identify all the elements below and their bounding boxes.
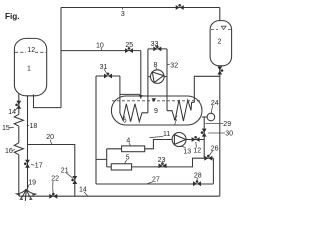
- valve 14: [15, 101, 21, 109]
- valve 31: [104, 73, 112, 79]
- valve 33: [153, 45, 161, 51]
- svg-text:14: 14: [8, 109, 16, 116]
- tank 2 level dashed line: [211, 28, 231, 30]
- wire pump 11 discharge: [186, 139, 204, 141]
- svg-text:9: 9: [154, 108, 158, 115]
- svg-text:6: 6: [123, 118, 127, 125]
- pump 11: [172, 133, 186, 147]
- svg-text:15: 15: [2, 125, 10, 132]
- svg-text:29: 29: [223, 121, 231, 128]
- valve 31 box: [96, 75, 120, 77]
- wire tank2 outlet drop (line 29): [219, 66, 221, 196]
- svg-text:1: 1: [27, 66, 31, 73]
- wire bottom main line: [19, 195, 220, 197]
- expansion zigzag 15: [14, 114, 23, 126]
- spray symbol at drain: [17, 189, 36, 201]
- valve 21: [71, 176, 77, 184]
- tank 1 right outlet to riser: [34, 94, 62, 107]
- wire zigzag line to bottom: [18, 155, 20, 197]
- valve 23: [159, 162, 167, 168]
- svg-text:13: 13: [183, 148, 191, 155]
- valve 12: [192, 136, 200, 142]
- wire rect5 outlet line: [132, 158, 214, 167]
- svg-text:23: 23: [158, 157, 166, 164]
- svg-text:4: 4: [126, 138, 130, 145]
- heat exchanger shell 9: [111, 96, 202, 125]
- heater rect 4: [122, 146, 145, 152]
- gauge circle 24: [207, 113, 215, 121]
- wire line 27: [96, 183, 213, 185]
- tank 1 center outlet line 18: [27, 95, 29, 189]
- wire top pipe 3: [61, 7, 220, 9]
- wire line 20: [28, 145, 75, 197]
- wire tank2 branch to coil 7: [194, 76, 220, 102]
- svg-text:11: 11: [163, 131, 170, 138]
- svg-text:8: 8: [154, 62, 158, 69]
- valve under tank 2: [217, 67, 223, 75]
- valve 30: [201, 129, 207, 137]
- svg-text:31: 31: [100, 64, 108, 71]
- heater rect 5: [111, 164, 131, 170]
- wire between zigzags: [18, 126, 20, 143]
- svg-text:30: 30: [225, 131, 233, 138]
- svg-text:19: 19: [28, 180, 36, 187]
- svg-text:Fig.: Fig.: [5, 12, 20, 21]
- shell level dashed line: [112, 100, 201, 102]
- expansion zigzag 16: [14, 143, 23, 155]
- wire stub into exchanger: [120, 93, 141, 95]
- svg-text:12: 12: [27, 47, 35, 54]
- svg-text:18: 18: [30, 123, 38, 130]
- svg-text:17: 17: [35, 162, 43, 169]
- wire left riser: [60, 8, 62, 108]
- wire rect4 outlet to pump 11: [145, 140, 172, 149]
- tank 1 bottom left outlet: [18, 94, 20, 115]
- svg-text:7: 7: [173, 119, 177, 126]
- wire line 10: [61, 50, 141, 52]
- svg-text:10: 10: [96, 43, 104, 50]
- arrow into shell: [139, 95, 143, 99]
- valve 26: [204, 155, 212, 161]
- valve 17: [24, 160, 30, 168]
- valve 22: [49, 193, 57, 199]
- svg-text:33: 33: [151, 41, 159, 48]
- valve on pipe 3: [176, 4, 184, 10]
- tank 2 vessel: [210, 21, 232, 66]
- shell level triangle: [152, 98, 156, 102]
- svg-text:22: 22: [51, 176, 59, 183]
- wire valve25 downpipe: [140, 51, 142, 95]
- wire feed to heaters: [96, 149, 122, 167]
- valve 25: [125, 47, 133, 53]
- svg-text:32: 32: [170, 62, 178, 69]
- svg-text:24: 24: [211, 100, 219, 107]
- pump 8: [148, 70, 167, 84]
- pump 8 box: [148, 48, 167, 50]
- svg-text:16: 16: [5, 148, 13, 155]
- coil 7 zigzag: [167, 100, 194, 121]
- svg-text:12: 12: [193, 148, 201, 155]
- tank 2 level triangle: [221, 26, 226, 29]
- tank 1 vessel: [14, 38, 46, 95]
- svg-text:2: 2: [218, 39, 222, 46]
- svg-text:3: 3: [121, 11, 125, 18]
- wire down to line 27: [212, 158, 214, 184]
- wire tank2 inlet: [219, 8, 221, 21]
- valve 28: [193, 180, 201, 186]
- svg-text:28: 28: [194, 172, 202, 179]
- svg-text:14: 14: [79, 187, 87, 194]
- coil 6 zigzag: [120, 104, 148, 122]
- shell nozzle to gauge: [202, 116, 207, 118]
- wire gauge line down (29/30): [203, 117, 205, 158]
- svg-text:27: 27: [152, 177, 160, 184]
- tank 1 level dashed line: [15, 51, 46, 53]
